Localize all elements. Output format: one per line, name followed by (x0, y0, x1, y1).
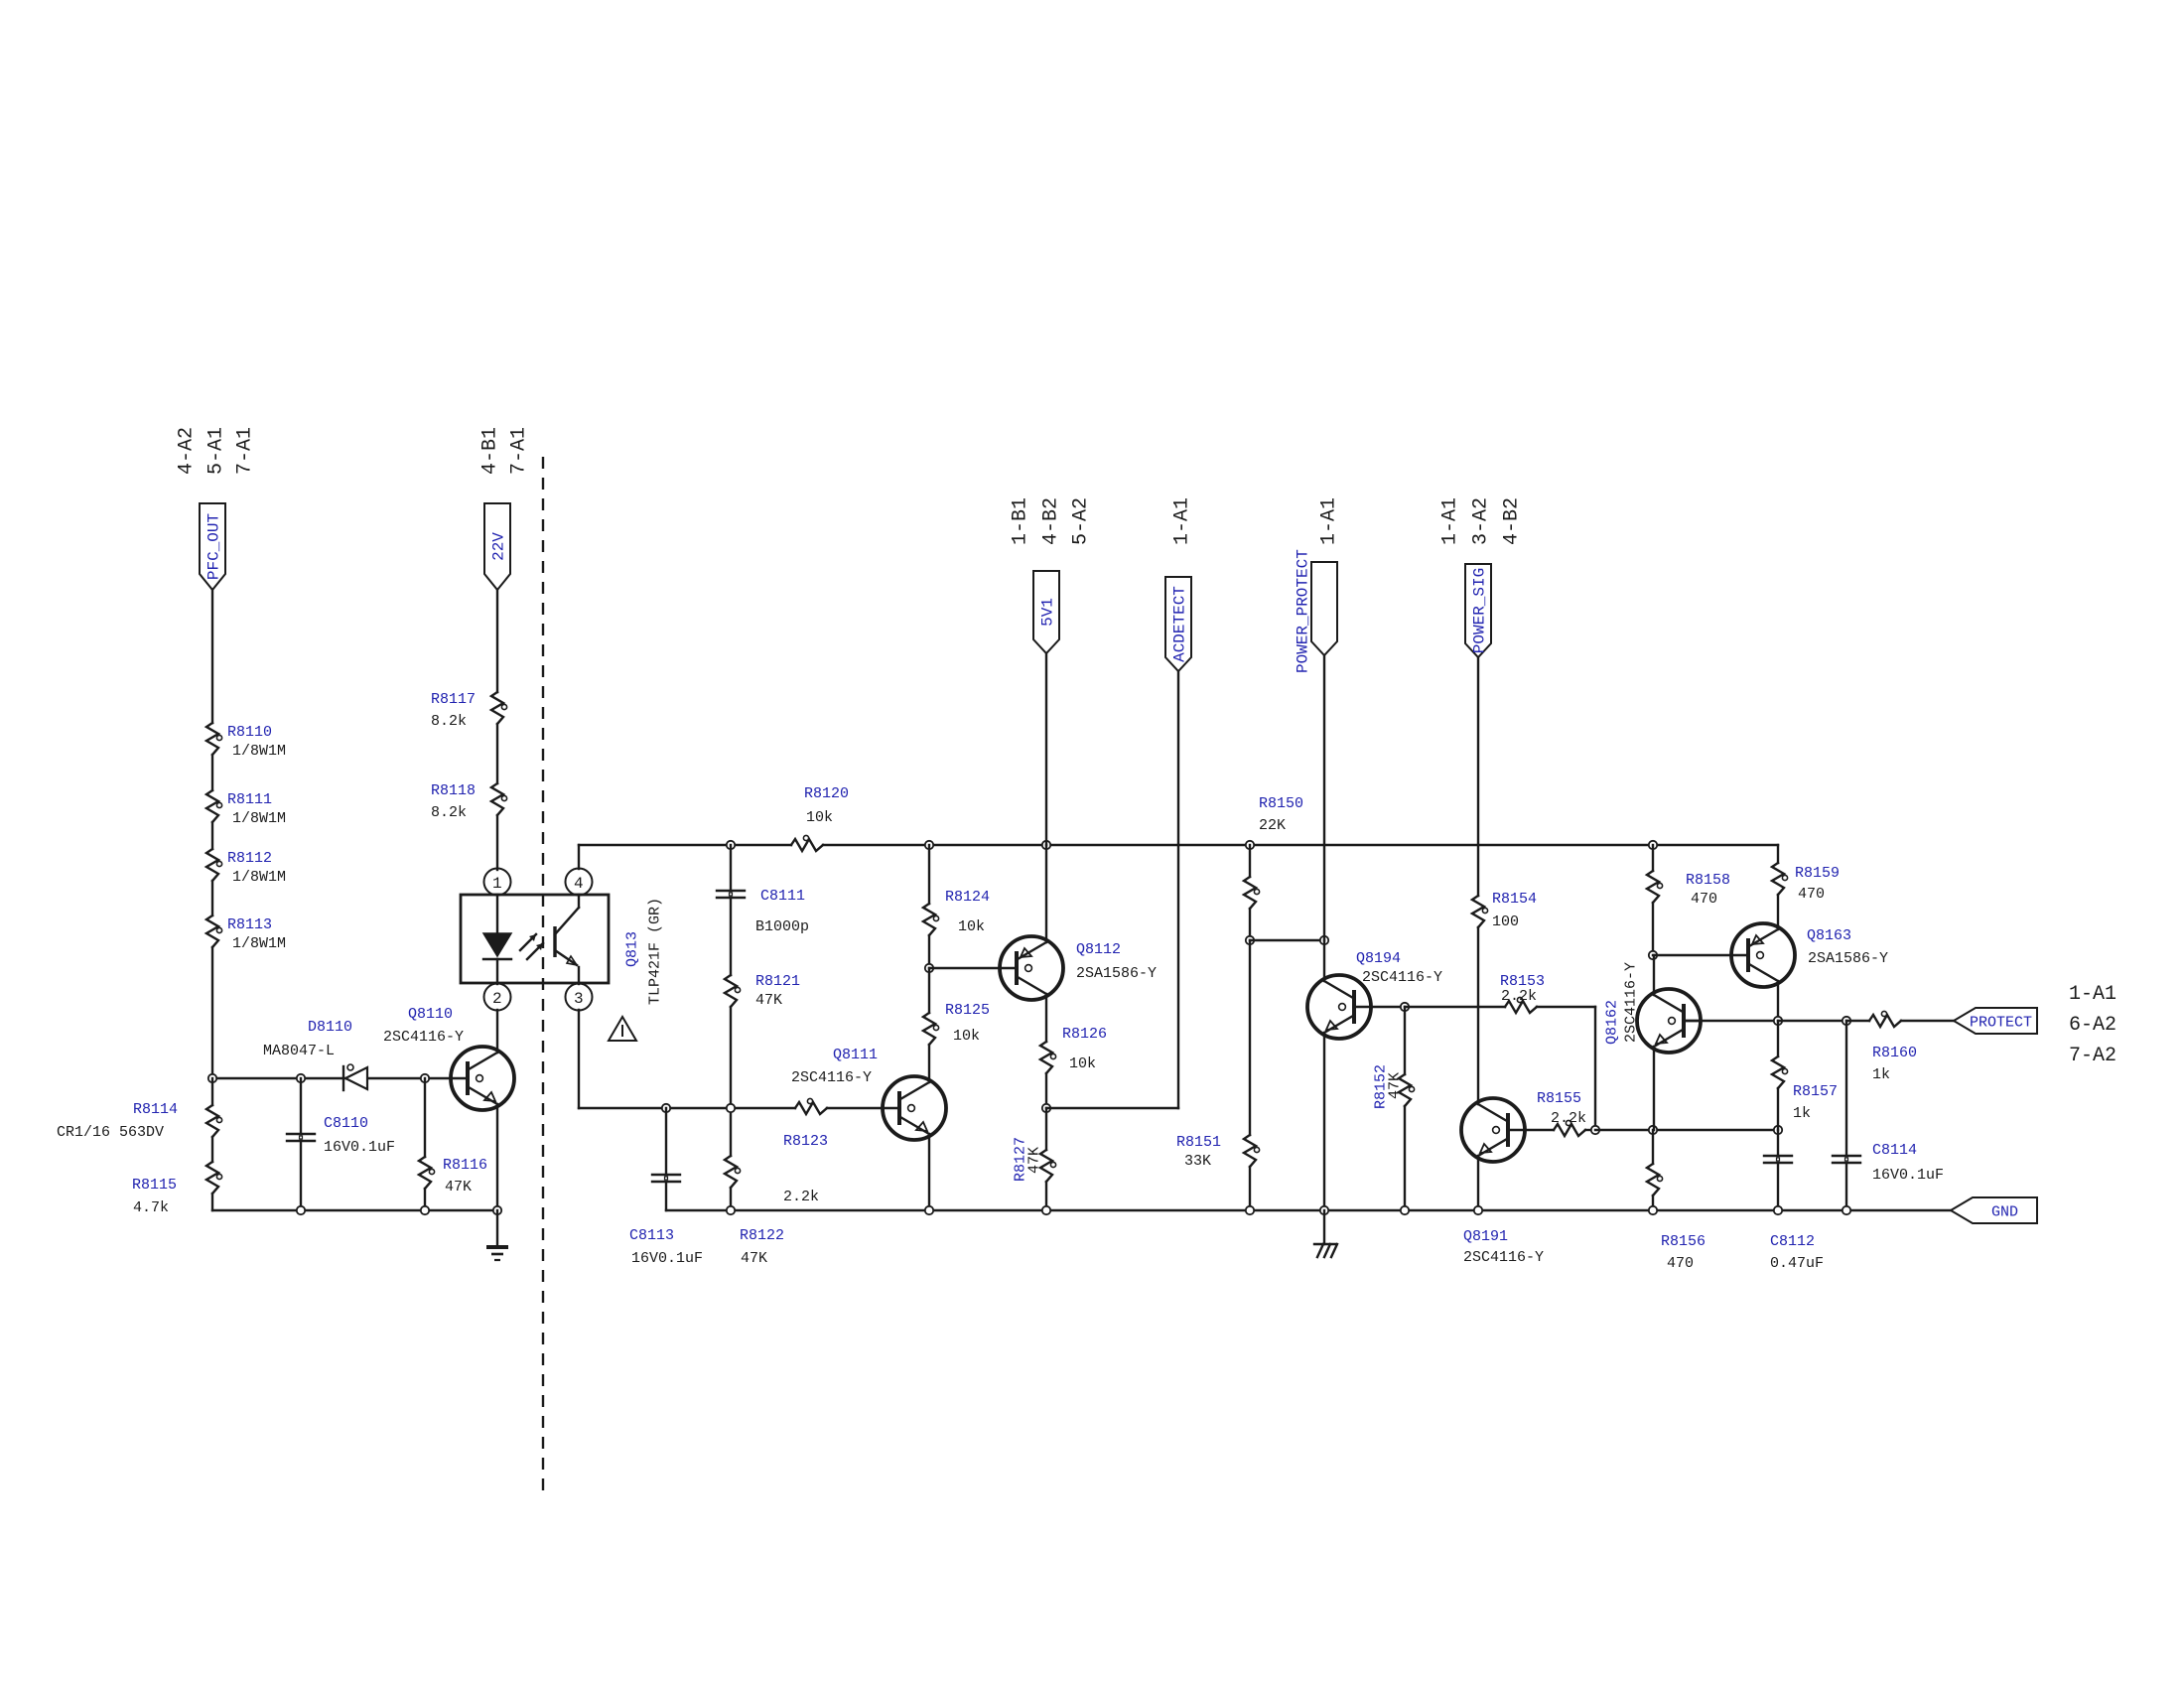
net flag PFC_OUT (200, 503, 225, 590)
svg-text:R8112: R8112 (227, 850, 272, 867)
node 5V1 sheet refs 1-B1 4-B2 5-A2 (1010, 497, 1093, 545)
svg-text:R8151: R8151 (1176, 1134, 1221, 1151)
resistor R8154 100 (1472, 891, 1537, 930)
wire Q8162 emitter riser (1653, 1047, 1655, 1130)
opto pin 4 (566, 869, 593, 896)
wire Q8110 emitter down (496, 1104, 498, 1210)
net flag POWER_SIG (1465, 564, 1491, 657)
svg-text:8.2k: 8.2k (431, 713, 467, 730)
svg-text:1k: 1k (1793, 1105, 1811, 1122)
wire Q8194 base to node (1371, 1006, 1405, 1008)
svg-text:C8112: C8112 (1770, 1233, 1815, 1250)
wire Q8194 emitter to chassis ground (1323, 1033, 1325, 1210)
svg-text:47K: 47K (445, 1179, 472, 1195)
capacitor C8110 16V0.1uF (287, 1078, 395, 1210)
wire R8123 to Q8111 base (827, 1107, 883, 1109)
svg-text:ACDETECT: ACDETECT (1171, 586, 1189, 662)
svg-text:R8113: R8113 (227, 916, 272, 933)
svg-text:10k: 10k (1069, 1055, 1096, 1072)
junction bottom R8116 (421, 1206, 429, 1214)
wire R8118 to opto pin1 (496, 815, 498, 870)
wire R8110-R8111 (211, 755, 213, 790)
svg-text:47K: 47K (1026, 1147, 1043, 1174)
svg-text:R8150: R8150 (1259, 795, 1303, 812)
resistor R8125 10k (923, 1002, 990, 1045)
svg-text:10k: 10k (953, 1028, 980, 1045)
junction GND bus R8156 (1649, 1206, 1657, 1214)
svg-text:2SA1586-Y: 2SA1586-Y (1076, 965, 1157, 982)
junction POWER_PROTECT/Q8194 collector (1320, 936, 1328, 944)
svg-text:1/8W1M: 1/8W1M (232, 743, 286, 760)
svg-text:MA8047-L: MA8047-L (263, 1043, 335, 1059)
junction R8121/R8122 (727, 1104, 735, 1112)
resistor R8111 1/8W1M (206, 790, 286, 827)
svg-text:R8156: R8156 (1661, 1233, 1706, 1250)
transistor Q8191 2SC4116-Y (1461, 1098, 1544, 1266)
transistor Q8111 2SC4116-Y (791, 1047, 946, 1140)
transistor Q8163 2SA1586-Y (1731, 923, 1888, 987)
wire 22V to R8117 (496, 590, 498, 692)
svg-text:R8126: R8126 (1062, 1026, 1107, 1043)
opto internal LED (483, 895, 511, 984)
net flag POWER_PROTECT (1295, 549, 1338, 673)
svg-text:R8122: R8122 (740, 1227, 784, 1244)
svg-text:R8117: R8117 (431, 691, 476, 708)
svg-text:16V0.1uF: 16V0.1uF (324, 1139, 395, 1156)
svg-text:2.2k: 2.2k (783, 1189, 819, 1205)
resistor R8127 47K (rotated label) (1013, 1108, 1056, 1210)
svg-text:470: 470 (1798, 886, 1825, 903)
svg-text:R8155: R8155 (1537, 1090, 1581, 1107)
svg-text:CR1/16 563DV: CR1/16 563DV (57, 1124, 164, 1141)
svg-text:1-A1: 1-A1 (1318, 497, 1341, 545)
transistor Q8194 2SC4116-Y (1307, 950, 1442, 1039)
junction GND bus Q8191 emitter (1474, 1206, 1482, 1214)
junction top bus R8158 (1649, 841, 1657, 849)
svg-text:1-B1: 1-B1 (1010, 497, 1032, 545)
junction GND bus R8152 (1401, 1206, 1409, 1214)
svg-text:5-A1: 5-A1 (205, 427, 228, 475)
svg-text:Q8194: Q8194 (1356, 950, 1401, 967)
svg-text:1-A1: 1-A1 (2069, 983, 2116, 1006)
wire Q8162 collector riser (1653, 955, 1655, 995)
wire POWER_SIG vertical (1477, 657, 1479, 896)
resistor R8118 8.2k (431, 782, 507, 821)
svg-text:Q8111: Q8111 (833, 1047, 878, 1063)
svg-text:TLP421F (GR): TLP421F (GR) (647, 898, 664, 1005)
svg-text:4.7k: 4.7k (133, 1199, 169, 1216)
resistor R8117 8.2k (431, 691, 507, 730)
junction Q8194 base / R8152 / R8153 (1401, 1003, 1409, 1011)
resistor R8112 1/8W1M (206, 849, 286, 886)
net flag 5V1 (1033, 571, 1059, 653)
junction R8150/R8151 tap (1246, 936, 1254, 944)
svg-text:0.47uF: 0.47uF (1770, 1255, 1824, 1272)
resistor R8123 2.2k (783, 1098, 828, 1205)
wire Q8163 base (1653, 954, 1731, 956)
junction GND bus R8127 (1042, 1206, 1050, 1214)
transistor Q8110 2SC4116-Y (383, 1006, 514, 1110)
wire Q8163 collector to PROTECT node (1777, 981, 1779, 1021)
node 22V sheet refs 4-B1 7-A1 (479, 427, 531, 475)
wire R8113 to node A (211, 947, 213, 1078)
capacitor C8111 B1000p (717, 845, 809, 975)
svg-text:C8113: C8113 (629, 1227, 674, 1244)
svg-text:R8111: R8111 (227, 791, 272, 808)
svg-text:100: 100 (1492, 914, 1519, 930)
wire Q8112 emitter riser to top bus (1045, 845, 1047, 942)
node ACDETECT sheet ref 1-A1 (1171, 497, 1194, 545)
junction R8155/R8153 corner node (1591, 1126, 1599, 1134)
wire node A horizontal to D8110 and Q8110 base (212, 1077, 452, 1079)
svg-text:2SC4116-Y: 2SC4116-Y (791, 1069, 872, 1086)
diode D8110 MA8047-L (263, 1019, 367, 1090)
resistor R8156 470 (1647, 1130, 1706, 1272)
svg-text:2SC4116-Y: 2SC4116-Y (1463, 1249, 1544, 1266)
svg-text:22K: 22K (1259, 817, 1286, 834)
svg-text:PFC_OUT: PFC_OUT (205, 513, 223, 580)
svg-text:R8118: R8118 (431, 782, 476, 799)
transistor Q8112 2SA1586-Y (1000, 936, 1157, 1000)
svg-text:4-A2: 4-A2 (176, 427, 199, 475)
resistor R8115 4.7k (132, 1162, 222, 1216)
junction bottom Q8110 emitter (493, 1206, 501, 1214)
svg-text:1/8W1M: 1/8W1M (232, 810, 286, 827)
junction R8116 top (421, 1074, 429, 1082)
junction Q8162 base/Q8163 collector/R8157 (1774, 1017, 1782, 1025)
svg-text:Q813: Q813 (624, 931, 641, 967)
junction Q8162 emitter / R8156 (1649, 1126, 1657, 1134)
wire R8112-R8113 (211, 881, 213, 915)
resistor R8151 33K (1176, 940, 1260, 1210)
svg-text:33K: 33K (1184, 1153, 1211, 1170)
wire R8121 to pin3 rail (730, 1007, 732, 1108)
opto pin 1 (484, 869, 511, 896)
svg-text:R8121: R8121 (755, 973, 800, 990)
svg-text:Q8110: Q8110 (408, 1006, 453, 1023)
junction top bus C8111 (727, 841, 735, 849)
svg-text:22V: 22V (490, 532, 508, 561)
wire R8159 to Q8163 emitter (1777, 895, 1779, 929)
svg-text:10k: 10k (958, 918, 985, 935)
resistor R8160 1k (1846, 1011, 1954, 1083)
svg-text:2SC4116-Y: 2SC4116-Y (1623, 962, 1640, 1043)
wire ACDETECT vertical (1177, 671, 1179, 1108)
net flag GND (1951, 1197, 2037, 1223)
resistor R8124 10k (923, 845, 990, 935)
svg-text:2SC4116-Y: 2SC4116-Y (383, 1029, 464, 1046)
svg-text:7-A1: 7-A1 (508, 427, 531, 475)
wire top bus left of R8120 (579, 844, 791, 846)
wire Q8111 collector riser (928, 1045, 930, 1082)
resistor R8158 470 (1647, 845, 1730, 908)
opto pin 2 (484, 984, 511, 1011)
svg-text:3: 3 (574, 990, 584, 1008)
junction node A (208, 1074, 216, 1082)
resistor R8157 1k (1772, 1021, 1838, 1130)
svg-text:R8110: R8110 (227, 724, 272, 741)
resistor R8155 2.2k (1525, 1090, 1595, 1136)
svg-text:Q8191: Q8191 (1463, 1228, 1508, 1245)
junction R8157 / C8112 (1774, 1126, 1782, 1134)
svg-text:2: 2 (492, 990, 502, 1008)
wire Q8191 emitter to GND bus (1477, 1156, 1479, 1210)
resistor R8159 470 (1772, 863, 1840, 903)
wire left bottom rail (212, 1209, 497, 1211)
resistor R8152 47K (rotated label) (1373, 1007, 1415, 1210)
svg-text:2SA1586-Y: 2SA1586-Y (1808, 950, 1888, 967)
svg-text:3-A2: 3-A2 (1470, 497, 1493, 545)
svg-text:R8120: R8120 (804, 785, 849, 802)
svg-text:2.2k: 2.2k (1501, 988, 1537, 1005)
svg-text:R8116: R8116 (443, 1157, 487, 1174)
svg-text:B1000p: B1000p (755, 918, 809, 935)
svg-text:16V0.1uF: 16V0.1uF (1872, 1167, 1944, 1184)
junction C8113 top (662, 1104, 670, 1112)
junction GND bus Q8111 emitter (925, 1206, 933, 1214)
resistor R8116 47K (419, 1078, 487, 1210)
wire 5V1 to top bus (1045, 653, 1047, 845)
capacitor C8114 16V0.1uF (1833, 1021, 1944, 1210)
junction GND bus R8151 (1246, 1206, 1254, 1214)
svg-text:2.2k: 2.2k (1551, 1110, 1586, 1127)
svg-text:7-A2: 7-A2 (2069, 1045, 2116, 1067)
opto pin 3 (566, 984, 593, 1011)
wire GND bus (666, 1209, 1951, 1211)
svg-text:R8158: R8158 (1686, 872, 1730, 889)
svg-text:1-A1: 1-A1 (1439, 497, 1462, 545)
svg-text:R8154: R8154 (1492, 891, 1537, 908)
wire opto pin4 riser to top bus (578, 845, 580, 869)
wire POWER_PROTECT to Q8194 collector (1323, 940, 1325, 981)
node PFC_OUT sheet refs 4-A2 5-A1 7-A1 (176, 427, 257, 475)
wire opto pin3 down and right (578, 1010, 580, 1108)
wire top bus right of R8120 (823, 844, 1778, 846)
junction top bus R8124 (925, 841, 933, 849)
svg-text:Q8112: Q8112 (1076, 941, 1121, 958)
resistor R8126 10k (1040, 1026, 1107, 1073)
node POWER_SIG sheet refs 1-A1 3-A2 4-B2 (1439, 497, 1524, 545)
resistor R8120 10k (791, 785, 849, 851)
wire Q8162 base to PROTECT node (1686, 1020, 1778, 1022)
svg-text:C8111: C8111 (760, 888, 805, 905)
wire R8115 to bottom rail (211, 1194, 213, 1210)
wire R8117-R8118 (496, 724, 498, 783)
junction C8110 top (297, 1074, 305, 1082)
svg-text:1: 1 (492, 875, 502, 893)
wire PFC_OUT to R8110 (211, 590, 213, 723)
svg-text:1/8W1M: 1/8W1M (232, 935, 286, 952)
svg-text:1-A1: 1-A1 (1171, 497, 1194, 545)
chassis ground symbol (1314, 1210, 1337, 1257)
svg-text:1k: 1k (1872, 1066, 1890, 1083)
svg-text:4-B1: 4-B1 (479, 427, 502, 475)
svg-text:2SC4116-Y: 2SC4116-Y (1362, 969, 1442, 986)
svg-text:R8125: R8125 (945, 1002, 990, 1019)
svg-text:1/8W1M: 1/8W1M (232, 869, 286, 886)
junction top bus R8150 (1246, 841, 1254, 849)
wire base node to Q8112 (929, 967, 1001, 969)
resistor R8150 22K (1244, 795, 1303, 909)
junction GND bus C8112 (1774, 1206, 1782, 1214)
svg-text:10k: 10k (806, 809, 833, 826)
svg-text:Q8163: Q8163 (1807, 927, 1851, 944)
opto-coupler Q813 TLP421F (GR) body (461, 895, 664, 1005)
svg-text:R8115: R8115 (132, 1177, 177, 1194)
resistor R8114 CR1/16 563DV (211, 1078, 213, 1105)
node PROTECT sheet refs 1-A1 6-A2 7-A2 (2069, 983, 2116, 1067)
junction top bus 5V1/Q8112 emitter (1042, 841, 1050, 849)
wire R8111-R8112 (211, 822, 213, 849)
junction C8114 top (1843, 1017, 1850, 1025)
wire R8154 to Q8191 collector (1477, 927, 1479, 1104)
wire Q8112 collector riser (1045, 994, 1047, 1042)
isolation barrier dashed line (542, 457, 544, 1494)
svg-text:47K: 47K (755, 992, 782, 1009)
junction GND bus R8122 (727, 1206, 735, 1214)
svg-text:Q8162: Q8162 (1604, 1000, 1621, 1045)
svg-text:5V1: 5V1 (1039, 598, 1057, 627)
opto internal phototransistor (555, 895, 579, 984)
svg-text:POWER_PROTECT: POWER_PROTECT (1295, 549, 1312, 673)
wire Q8110 collector to opto pin2 (496, 1010, 498, 1053)
junction bottom C8110 (297, 1206, 305, 1214)
svg-text:470: 470 (1667, 1255, 1694, 1272)
resistor R8113 1/8W1M (206, 915, 286, 952)
junction Q8112 base node (925, 964, 933, 972)
wire tap to POWER_PROTECT line (1250, 939, 1324, 941)
svg-text:5-A2: 5-A2 (1070, 497, 1093, 545)
svg-text:D8110: D8110 (308, 1019, 352, 1036)
svg-text:R8123: R8123 (783, 1133, 828, 1150)
wire Q8111 emitter riser (928, 1134, 930, 1210)
svg-text:470: 470 (1691, 891, 1717, 908)
svg-text:C8114: C8114 (1872, 1142, 1917, 1159)
junction GND bus Q8194 emitter (1320, 1206, 1328, 1214)
net flag ACDETECT (1165, 577, 1191, 671)
svg-text:POWER_SIG: POWER_SIG (1471, 568, 1489, 653)
wire PROTECT node to C8114 (1778, 1020, 1846, 1022)
net flag PROTECT (1954, 1008, 2037, 1034)
svg-text:4-B2: 4-B2 (1501, 497, 1524, 545)
wire R8114-R8115 (211, 1137, 213, 1162)
svg-text:47K: 47K (1387, 1072, 1404, 1099)
wire R8153 corner down to R8155 node (1594, 1007, 1596, 1130)
resistor R8122 47K (725, 1108, 784, 1267)
opto light arrows (520, 934, 543, 959)
svg-text:4-B2: 4-B2 (1040, 497, 1063, 545)
svg-text:GND: GND (1991, 1204, 2018, 1221)
wire POWER_PROTECT vertical (1323, 655, 1325, 940)
svg-text:R8160: R8160 (1872, 1045, 1917, 1061)
warning triangle mark (609, 1017, 636, 1041)
wire ACDETECT to junction (1046, 1107, 1178, 1109)
node POWER_PROTECT sheet ref 1-A1 (1318, 497, 1341, 545)
svg-text:C8110: C8110 (324, 1115, 368, 1132)
svg-text:R8159: R8159 (1795, 865, 1840, 882)
svg-text:16V0.1uF: 16V0.1uF (631, 1250, 703, 1267)
resistor R8153 2.2k (1405, 973, 1595, 1013)
svg-text:R8124: R8124 (945, 889, 990, 906)
ground earth symbol (486, 1210, 508, 1260)
net flag 22V (484, 503, 510, 590)
transistor Q8162 2SC4116-Y (rotated labels) (1604, 962, 1702, 1053)
junction R8126/R8127/ACDETECT (1042, 1104, 1050, 1112)
wire R8124 to junction (928, 935, 930, 968)
junction GND bus C8114 (1843, 1206, 1850, 1214)
svg-text:R8157: R8157 (1793, 1083, 1838, 1100)
junction R8158 / Q8162 collector / Q8163 base (1649, 951, 1657, 959)
svg-text:8.2k: 8.2k (431, 804, 467, 821)
resistor R8110 1/8W1M (206, 723, 286, 760)
wire R8155 node to R8156 node (1595, 1129, 1778, 1131)
svg-text:6-A2: 6-A2 (2069, 1014, 2116, 1037)
resistor R8121 47K (725, 973, 800, 1009)
capacitor C8113 16V0.1uF (629, 1108, 703, 1267)
svg-text:7-A1: 7-A1 (234, 427, 257, 475)
svg-text:47K: 47K (741, 1250, 767, 1267)
capacitor C8112 0.47uF (1764, 1130, 1824, 1272)
svg-text:R8114: R8114 (133, 1101, 178, 1118)
wire top bus corner to R8159 (1777, 845, 1779, 863)
svg-text:4: 4 (574, 875, 584, 893)
svg-text:PROTECT: PROTECT (1970, 1015, 2032, 1032)
